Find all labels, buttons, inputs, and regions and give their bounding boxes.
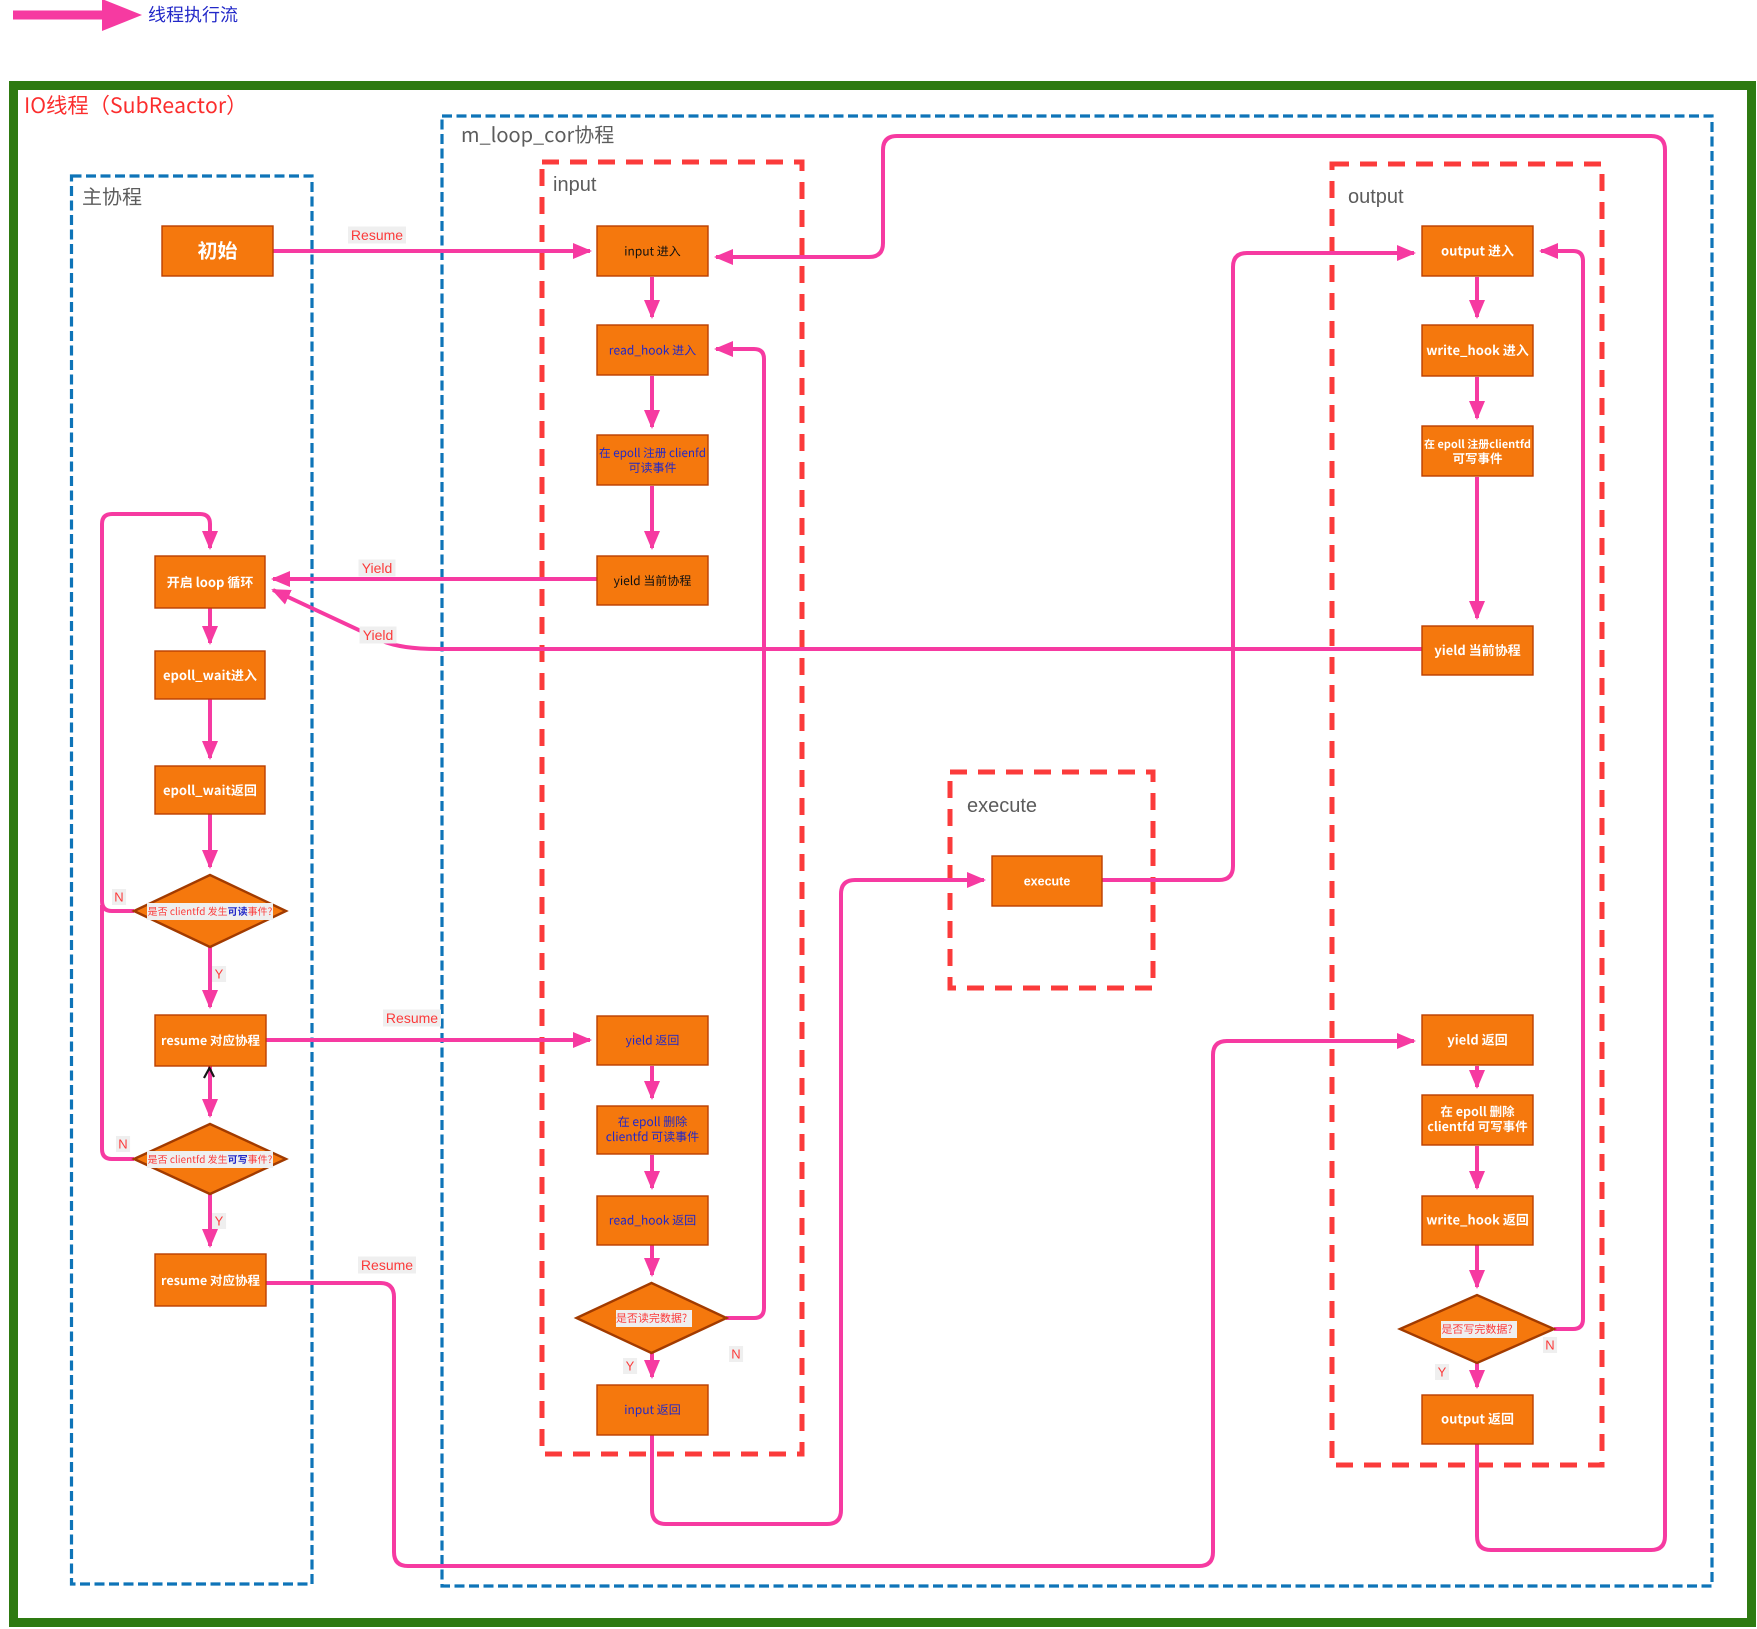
wire: write_hook返回 -> diamond写完数据 (1475, 1245, 1479, 1287)
wire: diamond可读 Y -> resume对应协程1 (208, 947, 212, 1007)
container: m_loop_cor协程 (blue dashed) (442, 116, 1712, 1586)
wire: resume对应协程2 -> yield返回(output) (Resume) (266, 1041, 1414, 1566)
text read_hook进入 (610, 345, 696, 357)
wire: diamond可读 N -> 开启loop循环 top (102, 514, 210, 911)
node: execute (992, 856, 1102, 906)
label Y diamond可读 (212, 966, 226, 982)
svg-text:output: output (1348, 186, 1404, 208)
label 主协程 (83, 187, 141, 205)
label N diamond读完 (729, 1346, 743, 1362)
svg-text:N: N (114, 890, 123, 905)
wire: output进入 -> write_hook进入 (1475, 277, 1479, 317)
text output返回 (1442, 1413, 1514, 1427)
node: diamond 是否写完数据? (1400, 1295, 1554, 1363)
svg-text:N: N (118, 1137, 127, 1152)
wire: epoll_wait进入 -> epoll_wait返回 (208, 699, 212, 758)
text write_hook进入 (1427, 344, 1529, 357)
text 初始 (198, 241, 237, 260)
label Yield (output->loop) (360, 627, 397, 644)
text 是否clientfd发生可写事件? (148, 1155, 227, 1164)
wire: read_hook返回 -> diamond读完数据 (650, 1245, 654, 1275)
title IO线程（SubReactor） (26, 95, 232, 115)
node: 在epoll注册clientfd可写事件 (1422, 426, 1533, 476)
text yield返回(output) (1448, 1034, 1507, 1048)
text clientfd可写事件 L2 (1428, 1120, 1527, 1132)
text 在epoll注册clienfd L1 (599, 447, 705, 460)
wire: 注册clientfd可写 -> yield当前协程(output) (1475, 477, 1479, 618)
node: output进入 (1422, 226, 1533, 276)
text input进入 (625, 246, 680, 259)
wire: input返回 -> execute (652, 880, 984, 1524)
node: 在epoll删除clientfd可读事件 (597, 1106, 708, 1154)
node: 在epoll注册clienfd可读事件 (597, 435, 708, 485)
text yield返回(input) (626, 1035, 679, 1048)
label Resume (初始->input) (348, 227, 406, 244)
svg-text:N: N (731, 1347, 740, 1362)
node: read_hook进入 (597, 325, 708, 375)
label Y diamond可写 (212, 1213, 226, 1229)
node: epoll_wait进入 (155, 651, 265, 699)
text epoll_wait返回 (164, 784, 256, 798)
label N diamond写完 (1543, 1337, 1557, 1353)
svg-text:Y: Y (215, 1214, 224, 1229)
node: diamond 是否读完数据? (577, 1283, 727, 1353)
node: write_hook进入 (1422, 325, 1533, 376)
label Y diamond读完 (623, 1358, 637, 1374)
svg-text:N: N (1545, 1338, 1554, 1353)
wire: output返回 -> input进入 (top loop) (716, 136, 1665, 1550)
node: input进入 (597, 226, 708, 276)
text yield当前协程(output) (1435, 644, 1521, 658)
text epoll_wait进入 (164, 669, 257, 683)
svg-text:Y: Y (1438, 1365, 1447, 1380)
node: output返回 (1422, 1395, 1533, 1444)
node: 在epoll删除clientfd可写事件 (1422, 1095, 1533, 1145)
wire: diamond写完 N -> output进入 (1541, 251, 1583, 1329)
text 在epoll删除 (out) L1 (1441, 1105, 1515, 1119)
text 在epoll注册clientfd L1 (1424, 439, 1530, 451)
label bg diamond可写 (147, 1151, 273, 1168)
svg-text:Y: Y (215, 967, 224, 982)
wire: 在epoll删除可写 -> write_hook返回 (1475, 1146, 1479, 1188)
label Resume (resume1->yield返回input) (383, 1010, 441, 1027)
wire: 在epoll删除可读 -> read_hook返回 (650, 1155, 654, 1188)
label m_loop_cor协程 (463, 125, 614, 146)
text output进入 (1442, 245, 1514, 259)
container: input (red dashed) (542, 162, 802, 1454)
node: 开启 loop 循环 (155, 556, 265, 608)
label Y diamond写完 (1435, 1364, 1449, 1380)
wire: diamond写完 Y -> output返回 (1475, 1363, 1479, 1387)
node: yield返回(output) (1422, 1015, 1533, 1065)
svg-text:input: input (553, 174, 597, 196)
node: diamond 是否clientfd发生可写事件? (134, 1124, 286, 1194)
label N diamond可写 (116, 1136, 130, 1152)
stray black arrowhead below resume对应协程1 (204, 1068, 214, 1078)
label N diamond可读 (112, 889, 126, 905)
svg-text:Resume: Resume (361, 1257, 413, 1273)
wire: diamond可写 Y -> resume对应协程2 (208, 1194, 212, 1246)
wire: 注册clienfd -> yield当前协程(input) (650, 486, 654, 548)
label bg diamond读完 (616, 1310, 692, 1327)
wire: resume对应协程1 -> yield返回(input) (Resume) (266, 1038, 590, 1042)
text 是否写完数据? (1442, 1324, 1512, 1334)
text 可写事件 L2 (1453, 452, 1502, 464)
text 可读事件 L2 (629, 462, 676, 473)
label Resume (resume2->yield返回output) (358, 1257, 416, 1274)
node: yield返回(input) (597, 1016, 708, 1065)
container: execute (red dashed) (950, 772, 1153, 988)
node: input返回 (597, 1385, 708, 1435)
label bg diamond可读 (147, 903, 273, 920)
wire: yield当前协程(input) -> 开启loop循环 (Yield) (273, 577, 597, 581)
wire: diamond读完 Y -> input返回 (650, 1353, 654, 1377)
node: diamond 是否clientfd发生可读事件? (134, 875, 286, 947)
container: 主协程 (blue dashed) (72, 176, 313, 1584)
svg-text:Y: Y (626, 1359, 635, 1374)
text resume对应协程2 (162, 1274, 260, 1286)
wire: yield当前协程(output) -> 开启loop循环 (Yield, diagonal) (273, 590, 1422, 649)
svg-text:execute: execute (1024, 875, 1071, 889)
wire: read_hook进入 -> 注册clienfd (650, 376, 654, 427)
wire: epoll_wait返回 -> diamond 可读事件? (208, 814, 212, 867)
svg-text:Yield: Yield (362, 560, 393, 576)
text 是否读完数据? (616, 1313, 686, 1323)
wire: resume对应协程1 -> diamond可写 (208, 1066, 212, 1116)
legend label 线程执行流 (149, 6, 238, 23)
text yield当前协程(input) (614, 575, 691, 588)
node: 初始 (162, 226, 273, 276)
wire: yield返回(output) -> 在epoll删除可写 (1475, 1066, 1479, 1087)
label bg diamond写完 (1441, 1321, 1517, 1338)
text clientfd可读事件 L2 (606, 1131, 698, 1142)
text input返回 (625, 1404, 680, 1417)
wire: yield返回(input) -> 在epoll删除可读 (650, 1066, 654, 1098)
text 开启loop循环 (167, 576, 253, 590)
node: epoll_wait返回 (155, 766, 265, 814)
node: write_hook返回 (1422, 1196, 1533, 1245)
wire: input进入 -> read_hook进入 (650, 277, 654, 317)
text resume对应协程1 (162, 1034, 260, 1046)
node: yield当前协程(input) (597, 556, 708, 605)
node: yield当前协程(output) (1422, 626, 1533, 675)
label Yield (input->loop) (359, 560, 396, 577)
svg-text:execute: execute (967, 795, 1037, 817)
node: read_hook返回 (597, 1196, 708, 1245)
container: output (red dashed) (1332, 164, 1602, 1465)
wire: execute -> output进入 (1102, 253, 1414, 880)
wire: 开启loop循环 -> epoll_wait进入 (208, 608, 212, 643)
legend thread-flow arrow (13, 11, 106, 20)
node: resume对应协程1 (155, 1015, 266, 1066)
svg-text:Resume: Resume (351, 227, 403, 243)
text write_hook返回 (1427, 1214, 1528, 1227)
wire: diamond读完 N -> read_hook进入 (716, 349, 764, 1318)
text 是否clientfd发生可读事件? (148, 907, 227, 916)
wire: 初始 -> input进入 (Resume) (273, 249, 590, 253)
svg-text:Yield: Yield (363, 627, 394, 643)
svg-text:Resume: Resume (386, 1010, 438, 1026)
wire: diamond可写 N -> join loop line (102, 905, 134, 1159)
wire: write_hook进入 -> 注册clientfd可写 (1475, 377, 1479, 418)
text read_hook返回 (610, 1215, 695, 1227)
text 在epoll删除 L1 (618, 1116, 687, 1129)
node: resume对应协程2 (155, 1254, 266, 1306)
